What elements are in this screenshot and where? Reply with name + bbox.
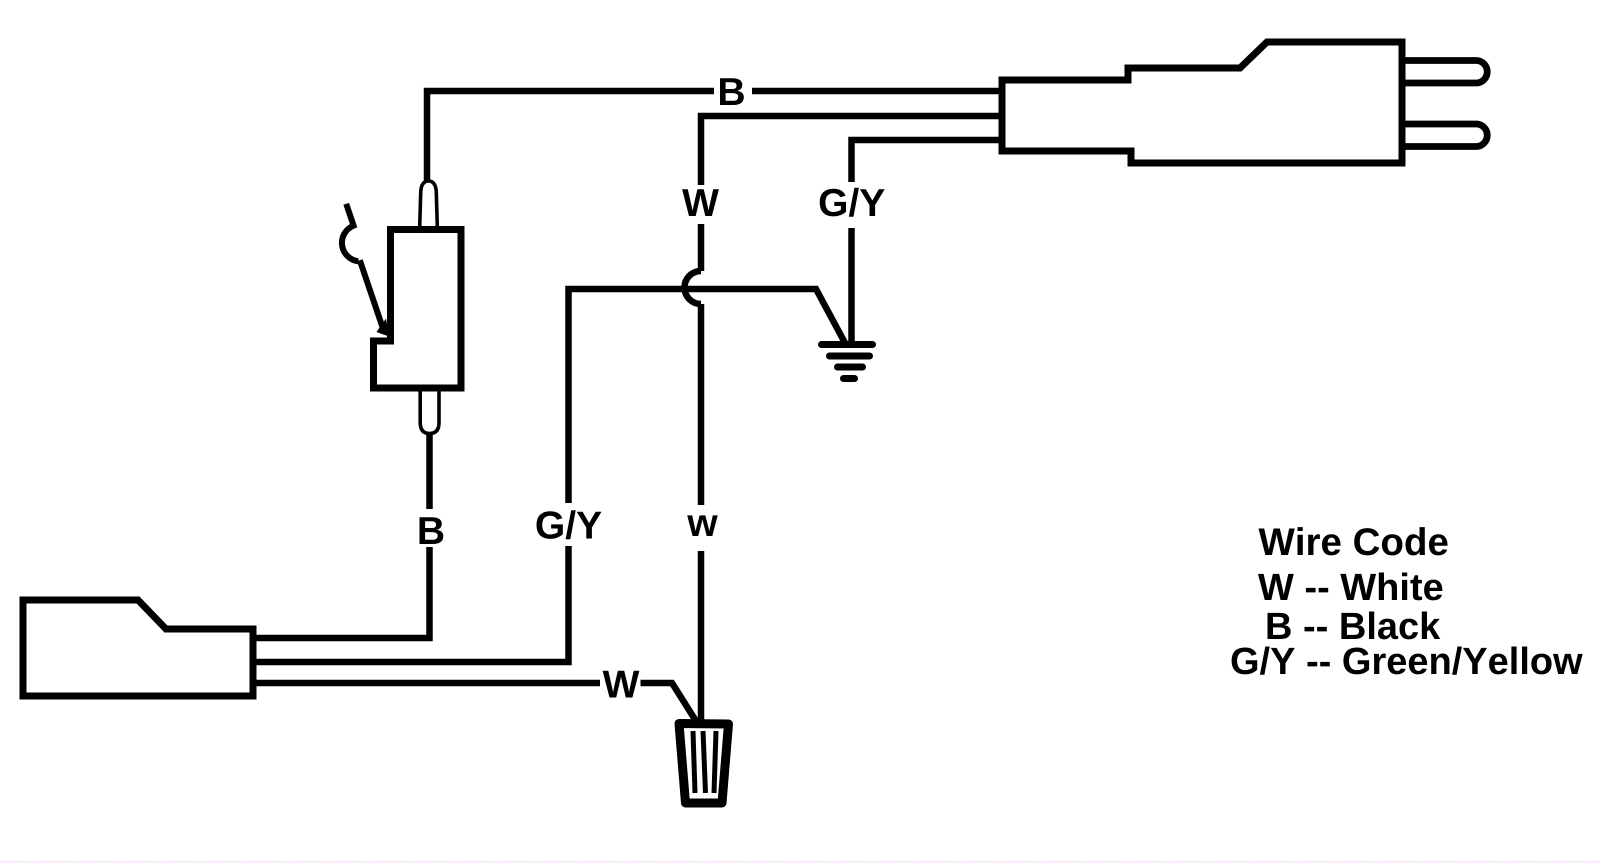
wire W bottom segment diagonal into wire nut	[641, 683, 697, 721]
legend line G/Y Green/Yellow	[1232, 647, 1583, 675]
wire B switch vertical upper segment	[426, 434, 433, 509]
wire G/Y left vertical lower segment to connector	[250, 546, 569, 662]
switch S1 arrowhead	[377, 319, 390, 337]
label G/Y left wire	[537, 510, 602, 539]
label B top wire	[720, 78, 744, 105]
wire W vertical into wire nut	[698, 551, 705, 725]
wire W horizontal from plug with corner down	[701, 116, 1005, 185]
AC plug P1 body	[1002, 42, 1402, 163]
ground symbol bar 4	[844, 375, 855, 382]
legend title Wire Code	[1259, 527, 1448, 555]
wire nut ridge 1	[693, 731, 695, 793]
wire nut body	[679, 724, 729, 804]
wire B top horizontal left segment with corner down to switch	[427, 91, 714, 181]
wire nut ridge 3	[714, 731, 716, 793]
legend line W White	[1258, 573, 1442, 601]
label B switch wire	[420, 517, 444, 544]
switch S1 top terminal	[419, 181, 437, 240]
wire G/Y branch horizontal with diagonal to ground	[569, 289, 846, 503]
label w nut wire	[687, 515, 718, 536]
wire W bottom horizontal from connector	[250, 680, 600, 687]
wire G/Y horizontal from plug with corner down	[852, 140, 1006, 182]
switch S1 actuator line	[360, 260, 385, 333]
switch S1 actuator hook	[342, 204, 358, 261]
ground symbol bar 1	[822, 341, 873, 348]
label W middle wire	[682, 189, 719, 216]
label G/Y right wire	[820, 188, 885, 217]
label W bottom wire	[603, 671, 640, 698]
AC plug lower prong	[1400, 124, 1487, 147]
wire nut ridge 2	[703, 731, 706, 793]
wire G/Y vertical to ground	[848, 228, 855, 346]
wire W vertical below label to hop	[698, 224, 705, 271]
ground symbol bar 3	[838, 364, 863, 371]
wire B top horizontal right segment to plug	[752, 88, 1005, 95]
AC plug upper prong	[1400, 61, 1487, 84]
legend line B Black	[1268, 612, 1441, 640]
connector J1 body	[23, 600, 253, 696]
switch S1 bottom terminal	[420, 380, 439, 434]
wire hop over horizontal wire	[685, 271, 702, 304]
ground symbol bar 2	[830, 353, 870, 360]
wire B switch vertical lower segment to connector	[250, 547, 430, 638]
switch S1 body	[374, 230, 462, 389]
bottom pink dotted border	[0, 861, 1600, 863]
wire W vertical below hop	[698, 304, 705, 505]
